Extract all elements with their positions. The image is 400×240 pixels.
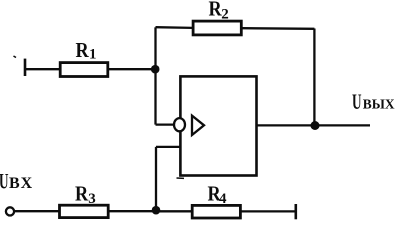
label Uvh bbox=[0, 169, 34, 193]
svg-text:2: 2 bbox=[221, 6, 229, 22]
label R4 bbox=[208, 182, 228, 207]
wire R2 branch left bbox=[156, 26, 193, 29]
wire R2 down to output node bbox=[313, 29, 315, 126]
input terminal T1 bbox=[24, 59, 27, 76]
wire R2 right bbox=[242, 27, 314, 30]
inversion bubble bbox=[174, 118, 185, 131]
svg-text:R: R bbox=[209, 0, 223, 21]
resistor R1 bbox=[60, 63, 108, 77]
resistor R2 bbox=[193, 21, 241, 35]
svg-text:1: 1 bbox=[89, 47, 97, 63]
op-amp U1 body bbox=[180, 76, 256, 175]
svg-text:ВХ: ВХ bbox=[9, 175, 34, 192]
svg-text:U: U bbox=[0, 169, 9, 193]
amplifier triangle symbol bbox=[192, 116, 204, 135]
wire node A down to inverting input bbox=[154, 69, 156, 124]
wire non-inverting input bbox=[156, 146, 180, 148]
label Uvyh bbox=[352, 89, 395, 113]
svg-text:4: 4 bbox=[219, 191, 227, 207]
resistor R3 bbox=[60, 205, 109, 217]
resistor R4 bbox=[192, 205, 240, 218]
ink smudge under box corner bbox=[177, 177, 185, 179]
wire T1 to R1 bbox=[26, 68, 60, 70]
output node junction dot bbox=[311, 121, 320, 130]
wire down to node B bbox=[155, 147, 157, 211]
output wire bbox=[257, 124, 371, 126]
wire R4 to terminal T2 bbox=[241, 210, 296, 212]
svg-text:U: U bbox=[352, 89, 362, 113]
wire node A up to R2 branch bbox=[154, 27, 156, 69]
input source terminal (open circle) bbox=[6, 207, 14, 215]
label R1 bbox=[76, 39, 97, 63]
svg-text:R: R bbox=[76, 39, 90, 63]
svg-text:3: 3 bbox=[88, 191, 96, 207]
node A junction dot bbox=[151, 65, 160, 74]
wire R3 to node B bbox=[109, 210, 157, 212]
label R2 bbox=[209, 0, 229, 22]
terminal T2 bbox=[294, 204, 297, 219]
wire R1 to node A bbox=[109, 68, 156, 70]
speck bbox=[14, 56, 17, 58]
node B junction dot bbox=[152, 206, 161, 215]
label R3 bbox=[75, 182, 96, 207]
wire node B to R4 bbox=[156, 210, 192, 212]
wire circle to R3 bbox=[15, 210, 60, 212]
svg-text:R: R bbox=[75, 182, 89, 206]
wire into inversion bubble bbox=[156, 123, 175, 125]
svg-text:ВЫХ: ВЫХ bbox=[363, 97, 395, 112]
